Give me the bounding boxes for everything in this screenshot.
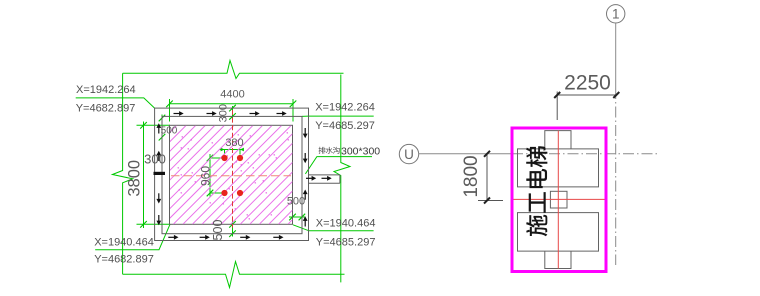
svg-text:500: 500 [211, 220, 225, 241]
svg-text:500: 500 [161, 126, 178, 137]
svg-text:X=1942.264: X=1942.264 [76, 84, 136, 96]
svg-text:300: 300 [218, 104, 230, 122]
svg-text:X=1940.464: X=1940.464 [94, 237, 154, 249]
svg-text:960: 960 [198, 166, 212, 186]
svg-text:1: 1 [612, 7, 620, 22]
svg-text:500: 500 [287, 196, 305, 208]
svg-text:U: U [404, 147, 414, 162]
svg-text:4400: 4400 [220, 88, 244, 100]
svg-text:Y=4682.897: Y=4682.897 [94, 254, 154, 266]
svg-text:X=1942.264: X=1942.264 [315, 101, 375, 113]
svg-text:X=1940.464: X=1940.464 [316, 217, 376, 229]
svg-text:3800: 3800 [126, 160, 144, 197]
svg-text:300: 300 [144, 152, 166, 167]
svg-text:2250: 2250 [564, 72, 611, 95]
svg-text:Y=4682.897: Y=4682.897 [76, 103, 136, 115]
svg-text:380: 380 [225, 137, 243, 149]
svg-text:1800: 1800 [461, 155, 482, 197]
svg-text:Y=4685.297: Y=4685.297 [315, 120, 375, 132]
svg-text:Y=4685.297: Y=4685.297 [316, 236, 376, 248]
svg-text:300*300: 300*300 [341, 145, 380, 157]
